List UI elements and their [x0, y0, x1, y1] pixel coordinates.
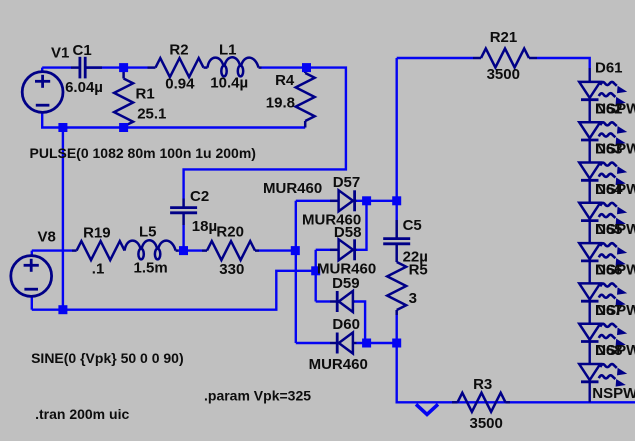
LED D67 [579, 324, 600, 342]
svg-text:18µ: 18µ [192, 218, 217, 235]
svg-text:C1: C1 [73, 42, 92, 59]
capacitor C5 [383, 239, 410, 244]
inductor L1 [208, 57, 259, 76]
svg-text:.param Vpk=325: .param Vpk=325 [204, 388, 311, 404]
wire V8 bottom lead [31, 296, 33, 310]
wire right vertical top to C5 [396, 58, 398, 220]
node junction D60 anode [362, 339, 371, 348]
LED D63 [579, 163, 600, 181]
node junction D57 cathode [362, 196, 371, 205]
svg-text:D58: D58 [334, 224, 362, 241]
svg-text:C5: C5 [403, 217, 422, 234]
svg-text:MUR460: MUR460 [309, 356, 368, 373]
wire top to R21 [397, 57, 473, 59]
wire LED string bottom lead [589, 382, 591, 403]
wire bridge left to D60 cathode [296, 342, 330, 344]
diode D60 [337, 333, 353, 354]
svg-text:NSPW: NSPW [595, 302, 635, 319]
node junction R1 top [119, 63, 128, 72]
voltage source V1 [22, 72, 63, 113]
svg-text:NSPW: NSPW [595, 262, 635, 279]
wire DC- down to bottom rail [397, 315, 635, 402]
wire bottom rail of pulse circuit [41, 126, 305, 128]
node junction rail1 left [58, 123, 67, 132]
svg-text:3500: 3500 [487, 66, 520, 83]
diode D59 [337, 291, 353, 312]
node DC- junction [392, 339, 401, 348]
wire D60 anode to DC- node [357, 342, 397, 344]
voltage source V8 [11, 256, 52, 297]
svg-text:R21: R21 [490, 29, 518, 46]
svg-text:R2: R2 [169, 41, 188, 58]
wire R20 to node C [259, 249, 295, 251]
wire L5 to R20 [179, 249, 202, 251]
svg-text:MUR460: MUR460 [263, 180, 322, 197]
resistor R1 [114, 79, 133, 127]
svg-text:NSPW: NSPW [595, 221, 635, 238]
svg-text:L1: L1 [219, 41, 237, 58]
wire V8 top lead [31, 251, 33, 257]
node A junction [302, 63, 311, 72]
node C junction R20 right [291, 246, 300, 255]
LED D68 [579, 364, 600, 382]
LED D61 light arrows [599, 82, 627, 105]
node junction rail2 left [58, 305, 67, 314]
diode D57 [339, 190, 355, 211]
svg-text:NSPW: NSPW [595, 181, 635, 198]
svg-text:R5: R5 [409, 262, 428, 279]
wire node D to D59 cathode [316, 300, 330, 302]
wire LED D64 to D65 [589, 221, 591, 244]
LED D65 [579, 243, 600, 261]
node junction R1 bottom [119, 123, 128, 132]
svg-text:R3: R3 [473, 376, 492, 393]
wire R21 to LED string top [537, 58, 590, 68]
wire D59 anode down to D60 node [355, 302, 366, 344]
LED D66 [579, 283, 600, 301]
wire LED string top lead [589, 68, 591, 82]
wire node to D57 anode [296, 200, 330, 202]
LED D63 light arrows [599, 163, 627, 186]
wire V1 bottom lead [41, 112, 43, 127]
wire LED D63 to D64 [589, 180, 591, 203]
svg-text:D57: D57 [333, 174, 361, 191]
svg-text:.tran 200m uic: .tran 200m uic [35, 406, 129, 422]
svg-text:D59: D59 [332, 275, 360, 292]
wire V1 to C1 [42, 66, 71, 68]
LED D64 [579, 203, 600, 221]
wire rail2 up to node D [32, 271, 316, 310]
wire V8 to R19 [32, 249, 72, 251]
svg-text:R20: R20 [216, 223, 244, 240]
svg-text:PULSE(0 1082 80m 100n 1u 200m): PULSE(0 1082 80m 100n 1u 200m) [30, 145, 256, 161]
svg-text:19.8: 19.8 [266, 94, 295, 111]
wire to D58 anode [316, 249, 330, 251]
svg-text:V8: V8 [38, 228, 56, 245]
wire node D vertical [315, 250, 317, 302]
wire left vertical tie rail1 to rail2 [62, 128, 64, 310]
inductor L5 [125, 240, 176, 259]
LED D68 light arrows [599, 364, 627, 387]
node DC+ junction [392, 196, 401, 205]
resistor R21 [481, 49, 529, 68]
LED D64 light arrows [599, 203, 627, 226]
resistor R20 [207, 241, 255, 260]
diode D58 [339, 239, 355, 260]
wire LED D67 to D68 [589, 342, 591, 365]
svg-text:NSPW: NSPW [592, 385, 635, 402]
wire D58 cathode up to D57 node [357, 201, 367, 250]
LED D62 [579, 122, 600, 140]
LED D65 light arrows [599, 243, 627, 266]
svg-text:R4: R4 [275, 72, 295, 89]
svg-text:6.04µ: 6.04µ [65, 79, 103, 96]
ground symbol [416, 404, 438, 414]
svg-text:SINE(0 {Vpk} 50 0 0 90): SINE(0 {Vpk} 50 0 0 90) [31, 350, 184, 366]
node B junction C2 bottom [179, 246, 188, 255]
LED D62 light arrows [599, 122, 627, 145]
svg-text:D60: D60 [332, 316, 360, 333]
wire LED D61 to D62 [589, 100, 591, 123]
svg-text:10.4µ: 10.4µ [210, 74, 248, 91]
resistor R5 [387, 262, 406, 310]
resistor R2 [156, 58, 204, 77]
svg-text:R19: R19 [83, 224, 111, 241]
svg-text:3500: 3500 [470, 415, 503, 432]
svg-text:L5: L5 [139, 224, 157, 241]
svg-text:1.5m: 1.5m [134, 260, 168, 277]
svg-text:NSPW: NSPW [595, 100, 635, 117]
wire LED D66 to D67 [589, 301, 591, 324]
wire bridge left vertical [295, 201, 297, 343]
resistor R19 [77, 241, 125, 260]
svg-text:3: 3 [409, 290, 417, 307]
svg-text:NSPW: NSPW [595, 342, 635, 359]
capacitor C2 [170, 208, 197, 213]
svg-text:NSPW: NSPW [595, 141, 635, 158]
wire V1 top lead [41, 68, 43, 72]
LED D61 [579, 82, 600, 100]
wire C2 bottom to node B [182, 225, 184, 251]
wire L1 to node A [262, 66, 307, 68]
capacitor C1 [80, 57, 85, 79]
svg-text:0.94: 0.94 [165, 75, 195, 92]
wire LED D62 to D63 [589, 140, 591, 163]
svg-text:.1: .1 [92, 261, 105, 278]
LED D67 light arrows [599, 324, 627, 347]
resistor R4 [296, 73, 315, 121]
wire node A to C2 top [184, 68, 346, 199]
svg-text:25.1: 25.1 [137, 105, 166, 122]
wire C1 to R2 [86, 66, 148, 68]
LED D66 light arrows [599, 283, 627, 306]
resistor R3 [458, 393, 506, 412]
wire D57 cathode to DC+ node [357, 200, 397, 202]
svg-text:V1: V1 [51, 45, 69, 62]
svg-text:330: 330 [219, 261, 244, 278]
wire LED D65 to D66 [589, 261, 591, 284]
svg-text:C2: C2 [190, 188, 209, 205]
node D junction [311, 266, 320, 275]
svg-text:D61: D61 [595, 60, 623, 77]
svg-text:R1: R1 [136, 86, 155, 103]
